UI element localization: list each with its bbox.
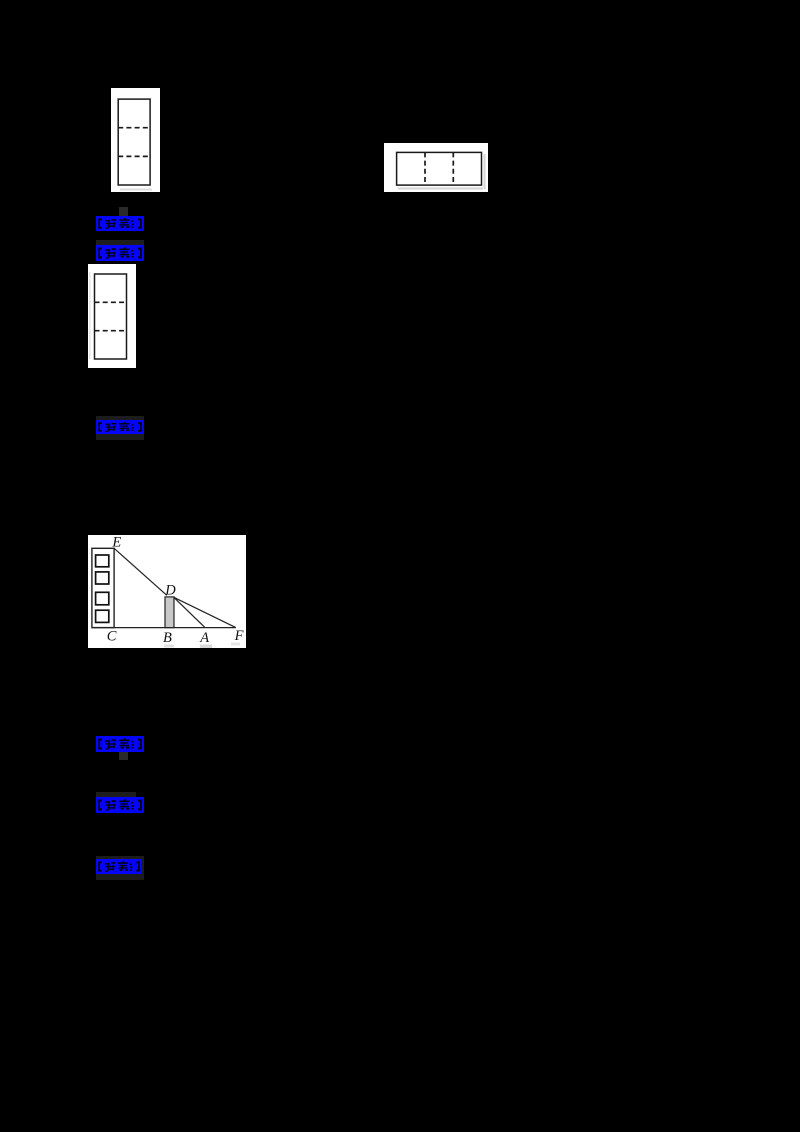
window 4 [96,610,109,622]
labels [107,535,244,647]
answer tag 1 (blue highlight) [119,207,128,216]
pole (gray) at B [165,597,174,628]
dashed fold line 2 [452,152,454,185]
window 3 [96,592,109,605]
figure: folded strip (horizontal) [384,143,488,192]
answer tag 2 (blue highlight) [96,240,144,245]
svg-text:C: C [107,629,117,645]
faint bottom shadow [120,189,152,191]
svg-text:B: B [163,630,172,646]
window 2 [96,572,109,584]
answer tag 5 (blue highlight) [96,792,136,797]
ray D to F [174,597,236,627]
faint right/bottom shadow [398,188,483,190]
dashed fold line 1 [118,127,150,129]
dashed fold line 2 [95,330,127,332]
outer rectangle [95,274,127,359]
outer rectangle [397,152,482,185]
dashed fold line 1 [95,301,127,303]
dashed fold line 2 [118,155,150,157]
answer tag 3 (blue highlight) [96,416,144,440]
faint marks under labels [164,645,174,648]
svg-text:E: E [111,535,121,551]
sun ray line E to D [114,548,167,595]
ground line C to F [92,627,236,629]
svg-text:A: A [199,630,209,646]
figure: building shadow geometry [88,535,246,648]
figure: folded strip (vertical) question 2 [88,264,136,368]
svg-text:F: F [234,628,244,644]
figure: folded strip (vertical) question 1 [111,88,160,192]
answer tag 4 (blue highlight) [96,736,144,752]
svg-text:D: D [164,583,176,599]
building rectangle [92,548,114,627]
outer rectangle [118,99,150,185]
dashed fold line 1 [424,152,426,185]
ray D to A [174,597,205,627]
faint crease line [89,272,91,359]
answer tag 6 (blue highlight) [96,856,144,880]
window 1 [96,555,109,567]
